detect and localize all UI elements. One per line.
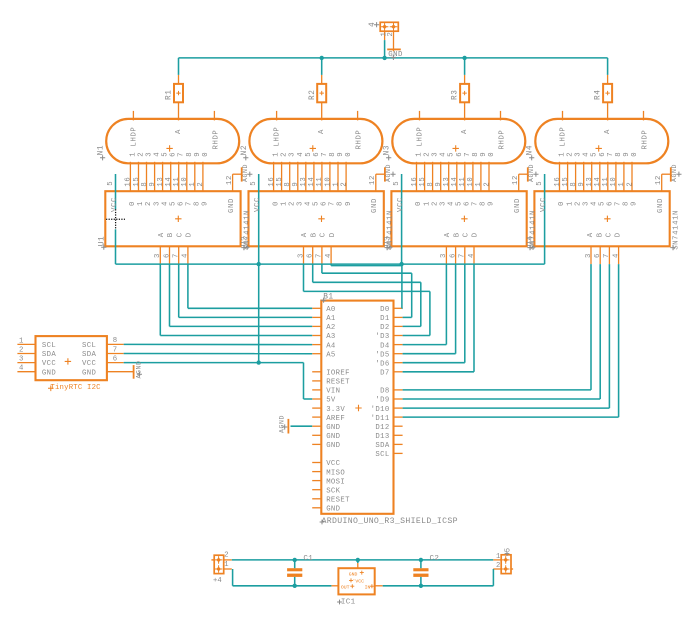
svg-text:8: 8 <box>186 152 194 157</box>
svg-text:N2: N2 <box>241 145 249 156</box>
svg-text:B: B <box>310 232 318 237</box>
svg-text:MOSI: MOSI <box>326 478 345 486</box>
svg-text:2: 2 <box>19 347 23 355</box>
svg-text:15: 15 <box>562 177 570 187</box>
svg-text:'D11: 'D11 <box>371 415 390 423</box>
svg-text:1: 1 <box>618 182 626 187</box>
svg-text:4: 4 <box>440 152 448 157</box>
svg-text:'D6: 'D6 <box>375 360 389 368</box>
svg-text:N4: N4 <box>527 145 535 156</box>
svg-text:1: 1 <box>423 201 431 206</box>
svg-text:SDA: SDA <box>82 351 96 359</box>
svg-text:D12: D12 <box>375 424 389 432</box>
svg-text:'VCC: 'VCC <box>353 578 365 584</box>
svg-text:RHDP: RHDP <box>642 130 650 150</box>
svg-text:C: C <box>606 232 614 237</box>
svg-text:5: 5 <box>162 152 170 157</box>
svg-text:3: 3 <box>297 201 305 206</box>
svg-text:7: 7 <box>459 253 467 258</box>
svg-text:AGND: AGND <box>671 164 678 182</box>
svg-text:SCL: SCL <box>375 451 389 459</box>
svg-text:9: 9 <box>631 201 639 206</box>
svg-text:4: 4 <box>182 253 190 258</box>
svg-text:D: D <box>186 232 194 237</box>
svg-text:GND: GND <box>657 198 665 213</box>
svg-text:R3: R3 <box>452 89 460 100</box>
svg-text:9: 9 <box>337 152 345 157</box>
svg-text:RHDP: RHDP <box>212 130 220 150</box>
svg-text:6: 6 <box>313 152 321 157</box>
svg-text:1: 1 <box>273 152 281 157</box>
svg-text:15: 15 <box>276 177 284 187</box>
svg-text:14: 14 <box>308 177 316 187</box>
svg-text:1: 1 <box>332 182 340 187</box>
svg-text:5: 5 <box>536 181 544 186</box>
svg-text:2: 2 <box>197 182 205 187</box>
svg-text:8: 8 <box>194 201 202 206</box>
svg-text:AGND: AGND <box>242 164 249 182</box>
svg-text:3: 3 <box>154 253 162 258</box>
svg-text:6: 6 <box>449 253 457 258</box>
svg-text:16: 16 <box>554 177 562 187</box>
svg-text:11: 11 <box>316 177 324 187</box>
svg-text:12: 12 <box>512 175 520 185</box>
svg-text:VIN: VIN <box>326 388 340 396</box>
svg-text:8: 8 <box>472 152 480 157</box>
svg-text:SCL: SCL <box>42 342 56 350</box>
svg-text:9: 9 <box>194 152 202 157</box>
svg-text:GND: GND <box>82 369 96 377</box>
svg-text:LHDP: LHDP <box>560 127 568 147</box>
svg-text:R2: R2 <box>309 89 317 100</box>
svg-text:AREF: AREF <box>326 415 345 423</box>
svg-text:A2: A2 <box>326 324 335 332</box>
svg-text:9: 9 <box>202 201 210 206</box>
svg-text:'D5: 'D5 <box>375 351 389 359</box>
svg-text:U4: U4 <box>528 236 536 247</box>
svg-text:'D3: 'D3 <box>375 333 389 341</box>
svg-text:3: 3 <box>297 253 305 258</box>
svg-text:8: 8 <box>337 201 345 206</box>
svg-text:SCK: SCK <box>326 487 340 495</box>
svg-text:3: 3 <box>432 152 440 157</box>
svg-text:0: 0 <box>129 201 137 206</box>
svg-text:8: 8 <box>480 201 488 206</box>
svg-text:15: 15 <box>419 177 427 187</box>
svg-text:RESET: RESET <box>326 497 350 505</box>
svg-text:9: 9 <box>623 152 631 157</box>
svg-text:B: B <box>453 232 461 237</box>
svg-text:12: 12 <box>369 175 377 185</box>
svg-text:8: 8 <box>141 182 149 187</box>
svg-text:1: 1 <box>566 201 574 206</box>
svg-text:9: 9 <box>435 182 443 187</box>
svg-text:9: 9 <box>578 182 586 187</box>
svg-text:14: 14 <box>451 177 459 187</box>
svg-text:12: 12 <box>226 175 234 185</box>
svg-text:2: 2 <box>626 182 634 187</box>
svg-text:VCC: VCC <box>540 197 548 212</box>
svg-text:3: 3 <box>585 253 593 258</box>
svg-text:4: 4 <box>612 253 620 258</box>
svg-text:A: A <box>444 232 452 237</box>
svg-text:D: D <box>472 232 480 237</box>
svg-text:5: 5 <box>505 547 513 552</box>
svg-text:GND: GND <box>326 424 340 432</box>
svg-text:D2: D2 <box>380 324 389 332</box>
svg-text:8: 8 <box>623 201 631 206</box>
svg-text:6: 6 <box>607 201 615 206</box>
svg-text:9: 9 <box>345 201 353 206</box>
svg-text:11: 11 <box>459 177 467 187</box>
svg-text:1: 1 <box>559 152 567 157</box>
svg-text:9: 9 <box>292 182 300 187</box>
svg-text:0: 0 <box>345 152 353 157</box>
svg-text:U3: U3 <box>385 236 393 247</box>
svg-text:GND: GND <box>349 572 358 578</box>
svg-text:IOREF: IOREF <box>326 370 350 378</box>
svg-text:1: 1 <box>475 182 483 187</box>
svg-text:A: A <box>318 129 326 134</box>
svg-text:C: C <box>320 232 328 237</box>
svg-text:D1: D1 <box>380 315 390 323</box>
svg-text:4: 4 <box>19 365 24 373</box>
svg-text:2: 2 <box>483 182 491 187</box>
svg-text:6: 6 <box>464 201 472 206</box>
svg-text:VCC: VCC <box>82 360 96 368</box>
svg-text:1: 1 <box>19 337 24 345</box>
svg-text:AGND: AGND <box>135 360 142 378</box>
svg-text:N3: N3 <box>384 145 392 156</box>
svg-text:10: 10 <box>610 177 618 187</box>
svg-text:D4: D4 <box>380 342 390 350</box>
svg-text:SDA: SDA <box>375 442 389 450</box>
svg-text:2: 2 <box>288 201 296 206</box>
svg-text:GND: GND <box>388 51 403 59</box>
svg-text:2: 2 <box>574 201 582 206</box>
svg-text:A0: A0 <box>326 306 335 314</box>
svg-text:AGND: AGND <box>385 164 392 182</box>
svg-text:D7: D7 <box>380 370 389 378</box>
svg-text:9: 9 <box>488 201 496 206</box>
svg-text:4: 4 <box>297 152 305 157</box>
svg-text:1: 1 <box>189 182 197 187</box>
svg-text:7: 7 <box>607 152 615 157</box>
svg-text:GND: GND <box>42 369 56 377</box>
svg-text:A4: A4 <box>326 342 336 350</box>
svg-text:6: 6 <box>177 201 185 206</box>
svg-text:AGND: AGND <box>528 164 535 182</box>
svg-text:7: 7 <box>472 201 480 206</box>
svg-text:14: 14 <box>165 177 173 187</box>
svg-text:1: 1 <box>280 201 288 206</box>
svg-text:0: 0 <box>558 201 566 206</box>
svg-text:13: 13 <box>157 177 165 187</box>
svg-text:VCC: VCC <box>397 197 405 212</box>
svg-text:13: 13 <box>443 177 451 187</box>
svg-text:8: 8 <box>615 152 623 157</box>
svg-text:6: 6 <box>599 152 607 157</box>
svg-text:IN: IN <box>365 585 371 591</box>
svg-text:7: 7 <box>321 152 329 157</box>
svg-text:1: 1 <box>416 152 424 157</box>
svg-text:9: 9 <box>149 182 157 187</box>
svg-text:2: 2 <box>496 562 500 570</box>
svg-text:C1: C1 <box>303 555 313 563</box>
svg-text:SCL: SCL <box>82 342 96 350</box>
svg-text:2: 2 <box>145 201 153 206</box>
svg-text:3: 3 <box>440 253 448 258</box>
svg-text:12: 12 <box>655 175 663 185</box>
svg-text:C: C <box>463 232 471 237</box>
svg-text:RESET: RESET <box>326 379 350 387</box>
svg-text:5: 5 <box>305 152 313 157</box>
svg-text:6: 6 <box>163 253 171 258</box>
svg-text:2: 2 <box>138 152 146 157</box>
svg-text:6: 6 <box>456 152 464 157</box>
svg-text:OUT: OUT <box>341 585 350 591</box>
svg-text:0: 0 <box>631 152 639 157</box>
svg-text:16: 16 <box>411 177 419 187</box>
svg-text:3.3V: 3.3V <box>326 406 345 414</box>
svg-text:10: 10 <box>324 177 332 187</box>
svg-text:SDA: SDA <box>42 351 56 359</box>
svg-text:16: 16 <box>125 177 133 187</box>
svg-text:5: 5 <box>599 201 607 206</box>
svg-text:A: A <box>461 129 469 134</box>
svg-text:2: 2 <box>424 152 432 157</box>
svg-text:A1: A1 <box>326 315 336 323</box>
svg-text:7: 7 <box>113 346 117 354</box>
svg-text:7: 7 <box>464 152 472 157</box>
svg-text:GND: GND <box>514 198 522 213</box>
svg-text:2: 2 <box>340 182 348 187</box>
svg-text:3: 3 <box>439 201 447 206</box>
svg-text:GND: GND <box>326 433 340 441</box>
svg-text:11: 11 <box>173 177 181 187</box>
svg-text:0: 0 <box>272 201 280 206</box>
svg-text:16: 16 <box>268 177 276 187</box>
svg-text:4: 4 <box>325 253 333 258</box>
svg-text:11: 11 <box>602 177 610 187</box>
svg-text:1: 1 <box>137 201 145 206</box>
svg-text:4: 4 <box>590 201 598 206</box>
svg-text:4: 4 <box>161 201 169 206</box>
svg-text:GND: GND <box>228 198 236 213</box>
svg-text:2: 2 <box>281 152 289 157</box>
svg-text:7: 7 <box>316 253 324 258</box>
svg-text:R4: R4 <box>595 89 603 100</box>
svg-text:5: 5 <box>169 201 177 206</box>
svg-text:R1: R1 <box>166 89 174 100</box>
svg-text:GND: GND <box>326 442 340 450</box>
svg-text:8: 8 <box>113 337 117 345</box>
svg-text:4: 4 <box>305 201 313 206</box>
svg-text:15: 15 <box>133 177 141 187</box>
svg-text:A5: A5 <box>326 351 335 359</box>
svg-text:D8: D8 <box>380 388 389 396</box>
svg-text:7: 7 <box>173 253 181 258</box>
svg-text:RHDP: RHDP <box>499 130 507 150</box>
svg-text:A3: A3 <box>326 333 335 341</box>
svg-text:5: 5 <box>456 201 464 206</box>
svg-text:D0: D0 <box>380 306 389 314</box>
svg-text:AGND: AGND <box>278 415 285 433</box>
svg-text:5: 5 <box>250 181 258 186</box>
svg-text:7: 7 <box>178 152 186 157</box>
svg-text:0: 0 <box>488 152 496 157</box>
svg-text:LHDP: LHDP <box>417 127 425 147</box>
svg-text:1: 1 <box>129 152 137 157</box>
svg-text:5: 5 <box>313 201 321 206</box>
svg-text:6: 6 <box>113 355 117 363</box>
svg-text:7: 7 <box>186 201 194 206</box>
svg-text:1: 1 <box>496 553 500 561</box>
svg-text:14: 14 <box>594 177 602 187</box>
svg-text:RHDP: RHDP <box>356 130 364 150</box>
svg-text:4: 4 <box>583 152 591 157</box>
svg-text:4: 4 <box>447 201 455 206</box>
svg-text:7: 7 <box>615 201 623 206</box>
svg-text:B: B <box>596 232 604 237</box>
svg-text:2: 2 <box>431 201 439 206</box>
svg-text:8: 8 <box>427 182 435 187</box>
svg-text:D13: D13 <box>375 433 389 441</box>
svg-text:0: 0 <box>415 201 423 206</box>
svg-text:D: D <box>615 232 623 237</box>
svg-text:8: 8 <box>329 152 337 157</box>
svg-text:5V: 5V <box>326 397 336 405</box>
svg-text:U2: U2 <box>242 236 250 247</box>
svg-text:13: 13 <box>586 177 594 187</box>
svg-text:A: A <box>175 129 183 134</box>
svg-text:5: 5 <box>107 181 115 186</box>
svg-text:LHDP: LHDP <box>274 127 282 147</box>
svg-text:4: 4 <box>154 152 162 157</box>
svg-text:C2: C2 <box>430 555 440 563</box>
svg-text:VCC: VCC <box>42 360 56 368</box>
svg-text:VCC: VCC <box>254 197 262 212</box>
svg-text:D: D <box>329 232 337 237</box>
svg-text:A: A <box>158 232 166 237</box>
svg-text:5: 5 <box>393 181 401 186</box>
svg-text:GND: GND <box>326 506 340 514</box>
svg-text:5: 5 <box>591 152 599 157</box>
svg-text:4: 4 <box>468 253 476 258</box>
svg-text:3: 3 <box>575 152 583 157</box>
svg-text:'D10: 'D10 <box>371 406 390 414</box>
svg-text:MISO: MISO <box>326 469 345 477</box>
svg-text:N1: N1 <box>98 145 106 156</box>
svg-text:6: 6 <box>594 253 602 258</box>
svg-text:2: 2 <box>387 32 395 37</box>
svg-text:2: 2 <box>567 152 575 157</box>
svg-text:1: 1 <box>224 561 228 569</box>
svg-text:'D9: 'D9 <box>375 397 389 405</box>
svg-text:SN74141N: SN74141N <box>673 210 681 250</box>
svg-text:5: 5 <box>448 152 456 157</box>
svg-text:B: B <box>167 232 175 237</box>
svg-text:10: 10 <box>467 177 475 187</box>
svg-text:8: 8 <box>284 182 292 187</box>
svg-text:U1: U1 <box>98 236 106 247</box>
svg-text:10: 10 <box>181 177 189 187</box>
svg-text:13: 13 <box>300 177 308 187</box>
svg-text:9: 9 <box>480 152 488 157</box>
svg-text:ARDUINO_UNO_R3_SHIELD_ICSP: ARDUINO_UNO_R3_SHIELD_ICSP <box>322 517 458 526</box>
svg-text:3: 3 <box>146 152 154 157</box>
svg-text:7: 7 <box>329 201 337 206</box>
svg-text:8: 8 <box>570 182 578 187</box>
svg-text:TinyRTC I2C: TinyRTC I2C <box>50 384 101 392</box>
svg-text:6: 6 <box>321 201 329 206</box>
svg-text:3: 3 <box>19 356 23 364</box>
svg-text:3: 3 <box>582 201 590 206</box>
svg-text:3: 3 <box>153 201 161 206</box>
svg-text:7: 7 <box>603 253 611 258</box>
svg-text:0: 0 <box>202 152 210 157</box>
svg-text:+4: +4 <box>213 577 222 585</box>
svg-text:2: 2 <box>224 551 228 559</box>
svg-text:GND: GND <box>371 198 379 213</box>
svg-text:LHDP: LHDP <box>130 127 138 147</box>
svg-text:C: C <box>176 232 184 237</box>
svg-text:6: 6 <box>307 253 315 258</box>
svg-text:VCC: VCC <box>326 460 340 468</box>
svg-text:A: A <box>587 232 595 237</box>
svg-text:A: A <box>604 129 612 134</box>
svg-text:A: A <box>301 232 309 237</box>
svg-text:6: 6 <box>170 152 178 157</box>
svg-text:3: 3 <box>289 152 297 157</box>
svg-text:IC1: IC1 <box>341 599 356 607</box>
